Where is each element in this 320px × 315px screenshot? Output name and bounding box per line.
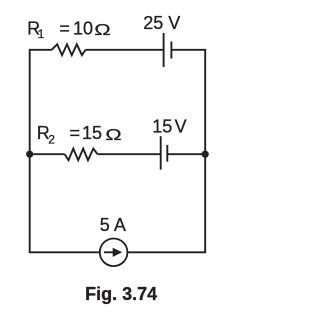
battery 15 V: long plate (+) [160, 136, 162, 169]
svg-text:R2=15: R2=15 [37, 123, 102, 147]
svg-text:R1=10: R1=10 [27, 18, 93, 41]
wire: battery 15V to node B [167, 153, 205, 155]
svg-text:25 V: 25 V [143, 13, 180, 33]
current source 5A: circle [100, 239, 128, 267]
battery 25 V: short plate (-) [170, 42, 172, 59]
svg-text:Fig. 3.74: Fig. 3.74 [85, 284, 157, 304]
wire: node A to R2 [30, 153, 65, 155]
current source 5A: arrow shaft [104, 251, 114, 253]
wire: right side vertical with top-right and bottom-right corners [127, 50, 205, 253]
svg-text:15V: 15V [152, 116, 186, 136]
resistor R1 [52, 44, 86, 55]
node A junction dot [26, 151, 33, 158]
wire: left side vertical with top-left and bottom-left corners [30, 50, 100, 253]
resistor R2 [65, 149, 98, 161]
svg-text:5 A: 5 A [100, 215, 126, 235]
node B junction dot [202, 151, 209, 158]
battery 15 V: short plate (-) [166, 145, 168, 162]
svg-text:Ω: Ω [94, 22, 110, 40]
wire: R1 to battery 25V [86, 49, 164, 51]
wire: R2 to battery 15V [98, 153, 161, 155]
svg-text:Ω: Ω [105, 126, 121, 144]
battery 25 V: long plate (+) [163, 33, 165, 67]
current source 5A: arrow head [113, 248, 123, 257]
